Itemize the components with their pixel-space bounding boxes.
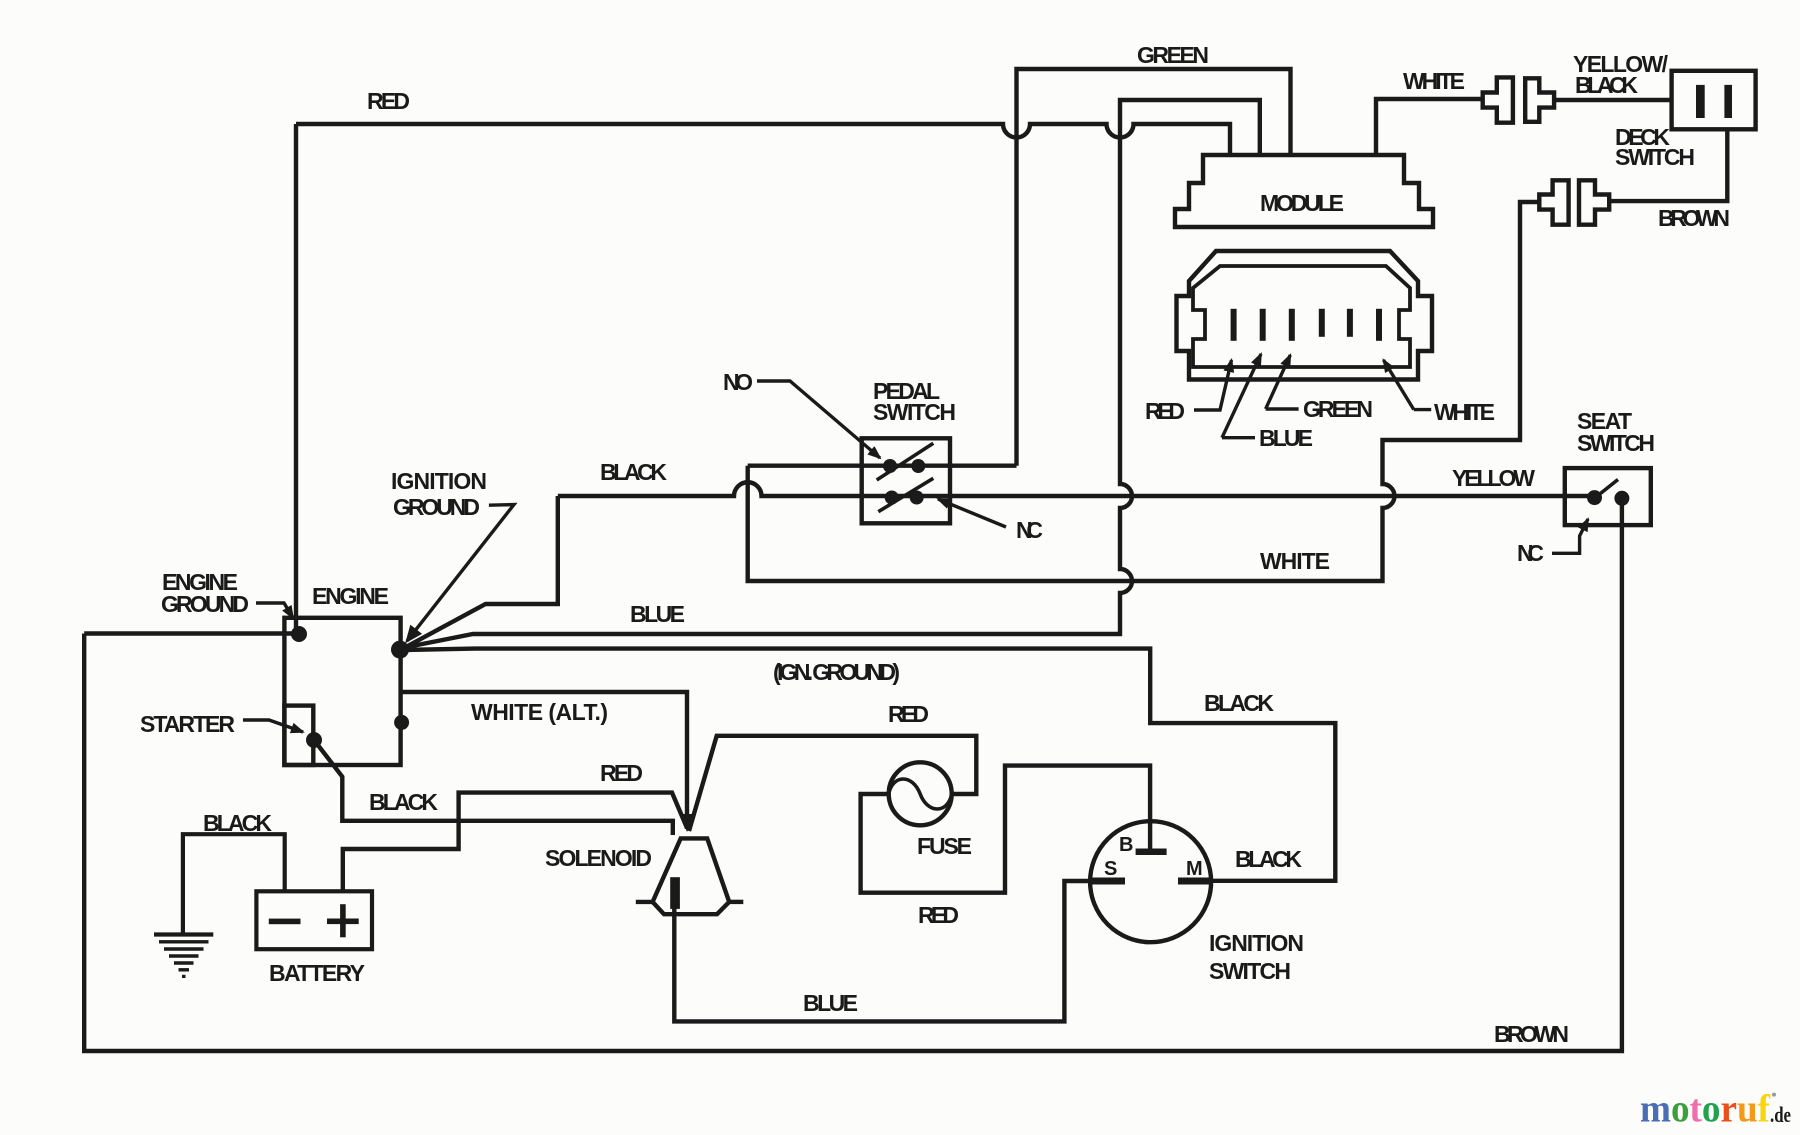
engine box: [284, 618, 400, 765]
svg-text:NO: NO: [723, 369, 753, 395]
seat switch box: [1565, 468, 1651, 525]
node seat left: [1587, 490, 1602, 505]
svg-text:IGNITION: IGNITION: [391, 468, 487, 494]
svg-text:.de: .de: [1770, 1102, 1791, 1127]
pedal slash NO: [877, 443, 934, 480]
fuse circle: [889, 762, 952, 825]
seat switch slash: [1596, 480, 1618, 498]
wire RED battery to solenoid: [343, 793, 687, 892]
pedal switch box: [862, 438, 950, 523]
connector pin 3: [1289, 309, 1295, 341]
node pedal NC right: [910, 491, 924, 505]
leader NC seat: [1552, 519, 1588, 553]
ignition M bar: [1178, 878, 1212, 885]
wire BLUE module to engine: [402, 100, 1260, 648]
svg-text:BLUE: BLUE: [630, 601, 685, 627]
svg-text:motoruf: motoruf: [1640, 1088, 1771, 1131]
connector pin 5: [1347, 309, 1353, 337]
svg-text:GROUND: GROUND: [161, 591, 249, 617]
svg-text:BLUE: BLUE: [1259, 425, 1313, 451]
svg-text:SWITCH: SWITCH: [1615, 144, 1695, 170]
connector pin 6: [1376, 309, 1382, 341]
svg-text:RED: RED: [600, 760, 643, 786]
wire engine ground left: [84, 631, 297, 635]
svg-text:BLACK: BLACK: [600, 459, 667, 485]
leader NO: [757, 381, 880, 458]
leader STARTER: [243, 720, 303, 732]
battery minus symbol: [269, 919, 301, 925]
svg-text:ENGINE: ENGINE: [312, 583, 389, 609]
svg-text:WHITE: WHITE: [1434, 399, 1495, 425]
leader ENGINE GROUND: [256, 603, 293, 618]
node starter: [306, 732, 322, 748]
starter box: [284, 706, 313, 765]
svg-text:BROWN: BROWN: [1494, 1021, 1569, 1047]
wire outer loop left bottom right: [84, 498, 1622, 1051]
svg-text:GROUND: GROUND: [393, 494, 480, 520]
ignition B bar: [1136, 849, 1167, 856]
svg-text:BLACK: BLACK: [1575, 72, 1638, 98]
svg-text:BLACK: BLACK: [1235, 846, 1302, 872]
deck switch bar 2: [1724, 85, 1732, 118]
svg-text:(IGN. GROUND): (IGN. GROUND): [773, 659, 900, 685]
connector half lower right: [1579, 180, 1609, 224]
leader RED pin1: [1194, 360, 1232, 410]
svg-text:BLACK: BLACK: [203, 810, 272, 836]
svg-text:RED: RED: [918, 902, 959, 928]
wire fuse to ignition B: [861, 766, 1151, 893]
wire deck switch to lower connector: [1609, 129, 1727, 201]
wire pedal NO contacts: [748, 464, 1017, 468]
wire BLACK starter to solenoid: [314, 740, 673, 835]
svg-text:SOLENOID: SOLENOID: [545, 845, 652, 871]
connector half upper left: [1483, 77, 1513, 122]
leader NC pedal: [938, 499, 1006, 527]
pedal slash NC: [878, 478, 933, 511]
wire BLACK pedal left to engine node: [404, 496, 558, 648]
motoruf.de logo: [1640, 1088, 1791, 1131]
svg-text:FUSE: FUSE: [917, 833, 972, 859]
svg-text:SWITCH: SWITCH: [873, 399, 956, 425]
svg-text:RED: RED: [367, 88, 410, 114]
svg-text:BLACK: BLACK: [1204, 690, 1274, 716]
leader GREEN pin3: [1266, 355, 1299, 409]
leader IGNITION GROUND: [407, 505, 514, 642]
deck switch box: [1672, 71, 1756, 130]
ground symbol: [154, 935, 213, 977]
svg-text:SWITCH: SWITCH: [1577, 430, 1655, 456]
connector half lower left: [1539, 180, 1568, 224]
wire connector to deck switch: [1554, 98, 1672, 102]
node pedal NO right: [911, 459, 925, 473]
node pedal NO left: [883, 459, 897, 473]
ignition S bar: [1092, 878, 1125, 885]
wire GREEN top: [1017, 69, 1291, 466]
svg-text:BLUE: BLUE: [803, 990, 858, 1016]
wire WHITE ALT: [401, 692, 687, 829]
solenoid stub left: [636, 900, 653, 904]
svg-text:S: S: [1104, 858, 1117, 880]
leader BLUE pin2: [1222, 354, 1261, 438]
connector pin 2: [1260, 309, 1266, 341]
svg-text:GREEN: GREEN: [1303, 396, 1373, 422]
leader WHITE pin6: [1384, 360, 1432, 410]
svg-text:WHITE: WHITE: [1260, 548, 1330, 574]
connector pin 1: [1231, 309, 1237, 341]
svg-text:NC: NC: [1517, 540, 1544, 566]
solenoid plunger bar: [670, 877, 680, 909]
connector half upper right: [1525, 78, 1554, 122]
wire RED vertical to engine: [294, 124, 298, 631]
svg-text:MODULE: MODULE: [1260, 190, 1344, 216]
svg-text:BATTERY: BATTERY: [269, 960, 365, 986]
fuse sine element: [889, 779, 952, 809]
wire RED solenoid to fuse: [689, 736, 976, 831]
svg-text:YELLOW: YELLOW: [1452, 465, 1535, 491]
wire WHITE seat/pedal long run: [748, 202, 1540, 581]
wire YELLOW pedal NC run: [558, 482, 1594, 496]
svg-text:IGNITION: IGNITION: [1209, 930, 1304, 956]
svg-text:RED: RED: [1145, 398, 1185, 424]
connector pin 4: [1319, 309, 1325, 337]
svg-text:WHITE (ALT.): WHITE (ALT.): [471, 699, 608, 725]
svg-text:BLACK: BLACK: [369, 789, 438, 815]
wire IGN GROUND run: [402, 649, 1335, 881]
svg-text:SWITCH: SWITCH: [1209, 958, 1291, 984]
node engine ignition ground: [391, 641, 409, 659]
solenoid body: [653, 838, 730, 914]
node pedal NC left: [885, 491, 899, 505]
svg-text:B: B: [1119, 834, 1133, 856]
svg-text:GREEN: GREEN: [1137, 42, 1209, 68]
svg-text:RED: RED: [888, 701, 929, 727]
wire RED main top: [296, 124, 1230, 155]
wire battery minus black: [183, 834, 285, 933]
node engine right lower: [394, 715, 409, 730]
battery plus symbol: [327, 919, 359, 925]
wire BLUE solenoid to ignition S: [674, 881, 1092, 1021]
big connector outer outline: [1177, 251, 1433, 380]
big connector inner outline: [1193, 266, 1410, 367]
solenoid stub right: [729, 900, 743, 904]
wire WHITE module to connector: [1376, 99, 1483, 155]
battery box: [256, 891, 372, 949]
svg-text:STARTER: STARTER: [140, 711, 235, 737]
svg-text:M: M: [1186, 858, 1203, 880]
svg-text:NC: NC: [1016, 517, 1043, 543]
svg-text:BROWN: BROWN: [1658, 205, 1730, 231]
deck switch bar 1: [1696, 85, 1705, 118]
ignition switch circle: [1090, 821, 1211, 942]
node seat right: [1614, 491, 1629, 506]
module outline: [1175, 155, 1433, 227]
node engine ground: [291, 626, 307, 642]
svg-text:WHITE: WHITE: [1403, 68, 1465, 94]
